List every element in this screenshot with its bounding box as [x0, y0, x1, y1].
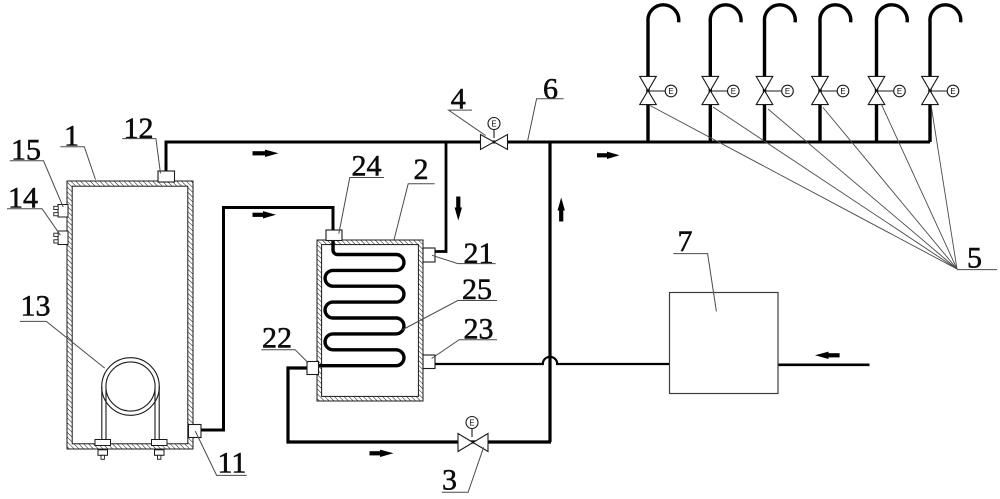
pipe: coil outlet 22 down and along bottom to riser: [288, 368, 551, 442]
label 1: [60, 120, 95, 180]
pipe: tank fitting 11 to coil inlet 24: [200, 208, 333, 431]
arrow right (top main after valve 4): [597, 152, 620, 159]
svg-text:6: 6: [543, 72, 558, 105]
coil clamp left: [95, 440, 111, 460]
svg-text:14: 14: [8, 181, 38, 214]
label 2: [394, 153, 435, 240]
arrow right (pipe 11-24): [253, 211, 277, 218]
faucet 5: [868, 5, 907, 142]
valve 4 (electric, on top main): [481, 118, 508, 150]
arrow right (bottom pipe before valve 3): [370, 450, 394, 457]
label 5: [957, 241, 997, 274]
svg-text:E: E: [731, 87, 736, 96]
faucet 2: [702, 5, 741, 142]
faucet 4: [812, 5, 851, 142]
fitting 12: [158, 171, 175, 182]
label 11: [195, 431, 246, 479]
svg-text:23: 23: [464, 313, 494, 346]
svg-text:E: E: [897, 87, 902, 96]
fitting 21: [423, 248, 435, 262]
label 3: [442, 447, 484, 496]
pipe: exchanger outlet 23 to unit 7 (with hop over riser): [433, 357, 670, 364]
label 24: [339, 150, 384, 234]
label 6: [528, 72, 564, 141]
pipe: return riser: [548, 142, 551, 442]
valve 3 (electric, on bottom pipe): [458, 417, 488, 452]
fitting 14 (lower left nipple): [54, 231, 68, 245]
heating coil 13 (circle with legs): [102, 358, 160, 440]
svg-text:2: 2: [414, 153, 429, 186]
label 22: [261, 322, 308, 363]
unit 7 box: [670, 293, 779, 394]
svg-text:E: E: [950, 87, 955, 96]
fitting 24: [326, 230, 342, 241]
label 4: [449, 82, 486, 135]
label 23: [432, 313, 497, 359]
label 13: [20, 290, 105, 369]
coil 25 (serpentine): [311, 241, 404, 366]
pipe: top hot water main: [165, 141, 931, 144]
tank 1 outer wall (hatched): [67, 181, 193, 449]
pipe: tank outlet 12 to top main: [165, 142, 168, 173]
label 14: [7, 181, 60, 235]
heat exchanger 2 shell (hatched): [317, 240, 423, 401]
arrow left (cold inlet): [815, 352, 840, 359]
svg-text:13: 13: [21, 290, 51, 323]
svg-text:E: E: [469, 419, 474, 428]
label 25: [402, 273, 497, 330]
svg-text:11: 11: [218, 447, 247, 480]
arrow up (return riser): [558, 198, 565, 222]
svg-text:12: 12: [124, 112, 154, 145]
fitting 11: [189, 425, 202, 438]
label 21: [432, 237, 496, 270]
label 15: [10, 134, 63, 208]
arrow right (top main near tank): [253, 150, 279, 157]
fitting 15 (upper left nipple): [54, 205, 68, 218]
svg-text:E: E: [785, 87, 790, 96]
fitting 23: [423, 355, 435, 369]
fitting 22: [307, 362, 319, 375]
svg-text:E: E: [840, 87, 845, 96]
faucet 6: [922, 5, 961, 142]
label 7: [673, 225, 716, 312]
svg-text:1: 1: [64, 120, 79, 153]
svg-text:E: E: [668, 87, 673, 96]
svg-text:15: 15: [11, 134, 41, 167]
svg-text:25: 25: [462, 273, 492, 306]
pipe: cold inlet from right into unit 7: [778, 363, 870, 366]
leader lines from faucet valves to label 5: [650, 104, 957, 270]
svg-text:7: 7: [678, 225, 693, 258]
faucet 3: [756, 5, 795, 142]
svg-text:21: 21: [464, 237, 494, 270]
label 12: [122, 112, 160, 174]
svg-text:E: E: [491, 120, 496, 129]
faucet 1: [640, 5, 679, 142]
pipe: branch down to exchanger inlet 21: [433, 142, 446, 252]
coil clamp right: [152, 440, 168, 460]
svg-text:3: 3: [442, 463, 457, 496]
arrow down (branch to 21): [455, 197, 462, 221]
